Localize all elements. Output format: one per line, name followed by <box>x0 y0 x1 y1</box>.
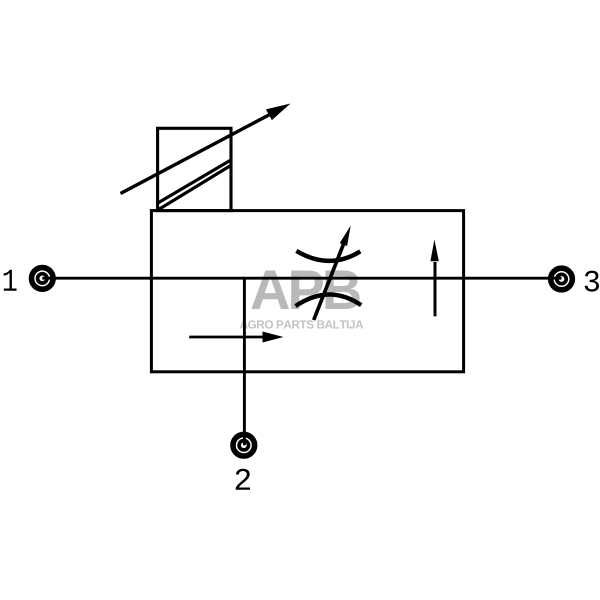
restrictor bottom arc <box>296 294 362 306</box>
valve body rectangle <box>151 211 463 372</box>
wire: main horizontal line port 1 to port 3 <box>42 277 561 280</box>
flow arrow right head <box>263 332 284 343</box>
adjustment arrow head <box>266 104 291 121</box>
adjustment arrow shaft <box>121 114 271 193</box>
pilot adjuster box <box>158 128 231 210</box>
port 2 outer circle <box>233 434 255 456</box>
label 3 <box>585 271 599 292</box>
pilot spring line lower <box>158 165 231 209</box>
restrictor top arc <box>296 251 360 261</box>
port 3 outer circle <box>551 268 573 290</box>
label 2 <box>236 469 250 490</box>
watermark AGRO PARTS BALTIJA <box>240 320 363 328</box>
port 1 inner circle <box>38 274 47 283</box>
pilot spring line upper <box>157 160 231 204</box>
wire: vertical line to port 2 <box>243 278 246 445</box>
port 1 outer circle <box>32 268 54 290</box>
label 1 <box>4 270 17 291</box>
port 2 inner circle <box>239 441 248 450</box>
flow arrow up shaft <box>434 262 437 316</box>
restrictor diagonal arrow shaft <box>314 241 345 320</box>
flow arrow right shaft <box>189 336 264 339</box>
watermark APB logo <box>251 271 359 310</box>
restrictor arrow head <box>340 226 351 247</box>
flow arrow up head <box>430 240 438 262</box>
port 3 inner circle <box>557 274 566 283</box>
